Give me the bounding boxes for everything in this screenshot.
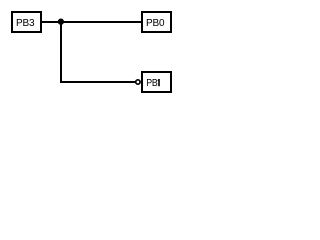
svg-text:PB3: PB3 [16,18,35,29]
inverter bubble at PB1 [136,80,140,84]
wire horizontal branch to PB1 [60,81,135,83]
wire vertical branch from junction [60,21,62,82]
digit 1 of PB1 (drawn) [157,79,160,86]
svg-text:PB0: PB0 [146,18,165,29]
junction dot [58,19,64,25]
wire net PB3 to PB0 (horizontal) [40,21,143,23]
pin PB0 box [142,12,171,32]
pin PB3 box [12,12,41,32]
svg-text:PB: PB [146,77,157,89]
pin PB1 box [142,72,171,92]
